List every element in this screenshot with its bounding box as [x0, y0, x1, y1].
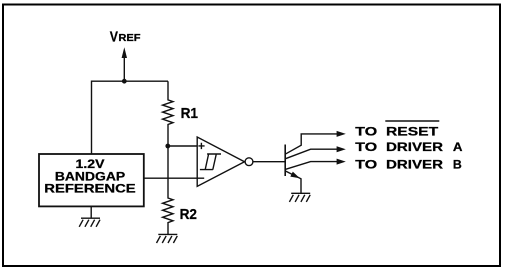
svg-text:DRIVER: DRIVER	[386, 140, 443, 154]
svg-text:R2: R2	[180, 206, 197, 223]
svg-text:DRIVER: DRIVER	[386, 158, 443, 172]
svg-text:V: V	[110, 28, 118, 45]
svg-text:A: A	[453, 140, 463, 154]
svg-text:REF: REF	[118, 33, 140, 44]
svg-text:TO: TO	[355, 124, 377, 138]
svg-text:1.2V: 1.2V	[76, 158, 105, 171]
svg-text:REFERENCE: REFERENCE	[44, 183, 136, 196]
svg-text:TO: TO	[355, 158, 377, 172]
svg-text:R1: R1	[181, 105, 198, 122]
svg-text:BANDGAP: BANDGAP	[55, 170, 126, 183]
svg-text:B: B	[453, 158, 462, 172]
svg-text:TO: TO	[355, 140, 377, 154]
svg-text:RESET: RESET	[386, 124, 439, 138]
